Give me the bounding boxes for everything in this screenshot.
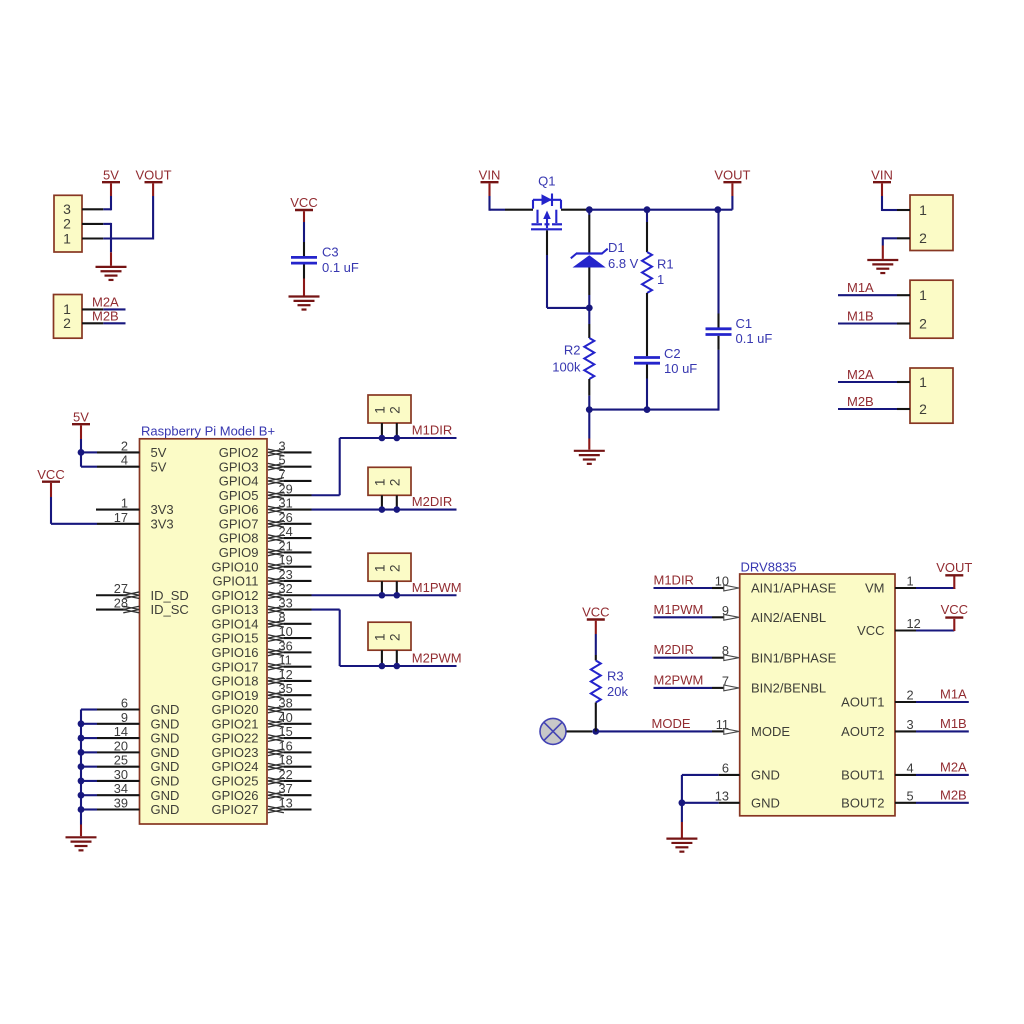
svg-text:1: 1 xyxy=(121,496,128,511)
svg-text:12: 12 xyxy=(907,616,921,631)
svg-text:1: 1 xyxy=(657,272,664,287)
svg-text:GPIO20: GPIO20 xyxy=(212,702,259,717)
svg-text:0.1 uF: 0.1 uF xyxy=(736,331,773,346)
svg-text:40: 40 xyxy=(279,710,293,725)
svg-text:3V3: 3V3 xyxy=(151,502,174,517)
svg-text:1: 1 xyxy=(919,202,927,218)
svg-text:M1B: M1B xyxy=(940,716,967,731)
svg-text:ID_SD: ID_SD xyxy=(151,588,189,603)
svg-text:12: 12 xyxy=(279,667,293,682)
svg-text:M1B: M1B xyxy=(847,308,874,323)
svg-text:GPIO17: GPIO17 xyxy=(212,659,259,674)
svg-text:10 uF: 10 uF xyxy=(664,361,697,376)
svg-text:VM: VM xyxy=(865,581,885,596)
svg-text:2: 2 xyxy=(387,633,402,641)
svg-text:GPIO15: GPIO15 xyxy=(212,631,259,646)
svg-text:2: 2 xyxy=(919,230,927,246)
svg-text:GPIO19: GPIO19 xyxy=(212,688,259,703)
svg-text:13: 13 xyxy=(715,788,729,803)
svg-text:1: 1 xyxy=(919,374,927,390)
svg-text:10: 10 xyxy=(279,624,293,639)
svg-text:24: 24 xyxy=(279,524,293,539)
svg-text:AIN1/APHASE: AIN1/APHASE xyxy=(751,581,837,596)
svg-text:1: 1 xyxy=(372,479,387,487)
svg-text:2: 2 xyxy=(919,401,927,417)
svg-text:GPIO24: GPIO24 xyxy=(212,759,259,774)
svg-text:21: 21 xyxy=(279,538,293,553)
svg-text:8: 8 xyxy=(279,610,286,625)
svg-text:AOUT2: AOUT2 xyxy=(841,724,884,739)
svg-text:VOUT: VOUT xyxy=(714,168,750,183)
svg-text:GPIO6: GPIO6 xyxy=(219,502,259,517)
svg-text:2: 2 xyxy=(121,438,128,453)
svg-text:11: 11 xyxy=(279,653,292,668)
svg-text:2: 2 xyxy=(387,479,402,487)
svg-text:25: 25 xyxy=(114,753,128,768)
svg-text:GPIO16: GPIO16 xyxy=(212,645,259,660)
svg-text:35: 35 xyxy=(279,681,293,696)
svg-text:AIN2/AENBL: AIN2/AENBL xyxy=(751,610,826,625)
svg-text:1: 1 xyxy=(919,287,927,303)
svg-text:16: 16 xyxy=(279,738,293,753)
svg-text:17: 17 xyxy=(114,510,128,525)
svg-text:2: 2 xyxy=(387,564,402,572)
svg-text:GND: GND xyxy=(151,731,180,746)
svg-text:3: 3 xyxy=(279,438,286,453)
svg-text:R1: R1 xyxy=(657,257,674,272)
svg-text:30: 30 xyxy=(114,767,128,782)
svg-text:GPIO23: GPIO23 xyxy=(212,745,259,760)
svg-text:23: 23 xyxy=(279,567,293,582)
svg-text:6: 6 xyxy=(121,696,128,711)
svg-text:BOUT2: BOUT2 xyxy=(841,795,884,810)
svg-text:29: 29 xyxy=(279,481,293,496)
svg-text:VCC: VCC xyxy=(582,605,609,620)
svg-text:34: 34 xyxy=(114,781,128,796)
svg-text:MODE: MODE xyxy=(751,724,790,739)
svg-text:1: 1 xyxy=(372,633,387,641)
svg-text:3: 3 xyxy=(63,201,71,217)
svg-text:BIN1/BPHASE: BIN1/BPHASE xyxy=(751,650,837,665)
svg-text:5: 5 xyxy=(907,788,914,803)
svg-text:MODE: MODE xyxy=(652,716,691,731)
svg-text:AOUT1: AOUT1 xyxy=(841,695,884,710)
svg-text:5V: 5V xyxy=(103,168,119,183)
svg-text:C3: C3 xyxy=(322,245,339,260)
svg-text:M2PWM: M2PWM xyxy=(412,651,462,666)
svg-text:1: 1 xyxy=(63,230,71,246)
svg-text:Raspberry Pi Model B+: Raspberry Pi Model B+ xyxy=(141,424,275,439)
svg-text:GND: GND xyxy=(151,702,180,717)
svg-text:4: 4 xyxy=(907,760,914,775)
svg-text:GPIO14: GPIO14 xyxy=(212,616,259,631)
svg-text:GPIO25: GPIO25 xyxy=(212,774,259,789)
svg-text:6.8 V: 6.8 V xyxy=(608,256,639,271)
svg-text:5V: 5V xyxy=(151,445,167,460)
svg-text:ID_SC: ID_SC xyxy=(151,602,189,617)
svg-text:6: 6 xyxy=(722,760,729,775)
svg-text:C2: C2 xyxy=(664,346,681,361)
svg-text:DRV8835: DRV8835 xyxy=(741,560,797,575)
svg-text:32: 32 xyxy=(279,581,293,596)
svg-text:GPIO7: GPIO7 xyxy=(219,516,259,531)
svg-text:GPIO26: GPIO26 xyxy=(212,788,259,803)
svg-text:1: 1 xyxy=(907,574,914,589)
svg-text:D1: D1 xyxy=(608,240,625,255)
svg-text:GPIO8: GPIO8 xyxy=(219,531,259,546)
svg-text:BOUT1: BOUT1 xyxy=(841,768,884,783)
svg-text:18: 18 xyxy=(279,753,293,768)
svg-text:GPIO22: GPIO22 xyxy=(212,731,259,746)
svg-text:M2A: M2A xyxy=(847,367,874,382)
svg-text:GND: GND xyxy=(151,716,180,731)
svg-text:31: 31 xyxy=(279,496,293,511)
svg-text:1: 1 xyxy=(372,564,387,572)
svg-text:M2B: M2B xyxy=(847,394,874,409)
svg-text:5: 5 xyxy=(279,453,286,468)
svg-text:GPIO21: GPIO21 xyxy=(212,716,259,731)
svg-text:M2DIR: M2DIR xyxy=(654,642,694,657)
svg-text:27: 27 xyxy=(114,581,128,596)
svg-text:GPIO10: GPIO10 xyxy=(212,559,259,574)
svg-text:GPIO13: GPIO13 xyxy=(212,602,259,617)
svg-text:5V: 5V xyxy=(151,459,167,474)
svg-text:R2: R2 xyxy=(564,343,581,358)
svg-text:GPIO3: GPIO3 xyxy=(219,459,259,474)
svg-text:2: 2 xyxy=(63,315,71,331)
svg-text:VIN: VIN xyxy=(479,168,501,183)
svg-text:Q1: Q1 xyxy=(538,174,555,189)
svg-text:GPIO27: GPIO27 xyxy=(212,802,259,817)
svg-text:5V: 5V xyxy=(73,409,89,424)
svg-text:20k: 20k xyxy=(607,684,628,699)
svg-text:GPIO2: GPIO2 xyxy=(219,445,259,460)
svg-text:39: 39 xyxy=(114,796,128,811)
svg-text:15: 15 xyxy=(279,724,293,739)
svg-text:GND: GND xyxy=(151,745,180,760)
svg-text:GND: GND xyxy=(751,795,780,810)
svg-text:3: 3 xyxy=(907,717,914,732)
svg-text:2: 2 xyxy=(919,315,927,331)
svg-text:M1PWM: M1PWM xyxy=(412,580,462,595)
svg-text:0.1 uF: 0.1 uF xyxy=(322,260,359,275)
svg-text:M2B: M2B xyxy=(92,308,119,323)
svg-text:R3: R3 xyxy=(607,669,624,684)
svg-text:GPIO11: GPIO11 xyxy=(212,574,258,589)
svg-text:GPIO5: GPIO5 xyxy=(219,488,259,503)
svg-text:M1PWM: M1PWM xyxy=(654,602,704,617)
svg-text:BIN2/BENBL: BIN2/BENBL xyxy=(751,681,826,696)
svg-text:GND: GND xyxy=(151,802,180,817)
svg-text:M1DIR: M1DIR xyxy=(412,423,452,438)
svg-text:2: 2 xyxy=(907,688,914,703)
svg-text:M1DIR: M1DIR xyxy=(654,573,694,588)
svg-text:7: 7 xyxy=(279,467,286,482)
svg-text:VOUT: VOUT xyxy=(135,168,171,183)
svg-text:19: 19 xyxy=(279,553,293,568)
svg-text:VOUT: VOUT xyxy=(936,560,972,575)
svg-text:2: 2 xyxy=(63,216,71,232)
svg-text:GPIO12: GPIO12 xyxy=(212,588,259,603)
svg-text:100k: 100k xyxy=(552,360,581,375)
svg-text:GPIO4: GPIO4 xyxy=(219,474,259,489)
svg-text:20: 20 xyxy=(114,738,128,753)
svg-text:33: 33 xyxy=(279,596,293,611)
svg-text:VCC: VCC xyxy=(290,195,317,210)
svg-text:GPIO9: GPIO9 xyxy=(219,545,259,560)
svg-text:C1: C1 xyxy=(736,316,753,331)
svg-text:M2DIR: M2DIR xyxy=(412,494,452,509)
svg-text:GND: GND xyxy=(151,759,180,774)
svg-text:VCC: VCC xyxy=(857,623,884,638)
svg-text:VCC: VCC xyxy=(37,467,64,482)
svg-text:GPIO18: GPIO18 xyxy=(212,674,259,689)
svg-text:3V3: 3V3 xyxy=(151,516,174,531)
svg-text:2: 2 xyxy=(387,406,402,414)
svg-text:36: 36 xyxy=(279,638,293,653)
svg-text:26: 26 xyxy=(279,510,293,525)
svg-text:1: 1 xyxy=(372,406,387,414)
svg-text:9: 9 xyxy=(121,710,128,725)
svg-text:M2A: M2A xyxy=(92,294,119,309)
svg-text:38: 38 xyxy=(279,696,293,711)
svg-text:M2PWM: M2PWM xyxy=(654,672,704,687)
svg-text:GND: GND xyxy=(151,788,180,803)
svg-text:37: 37 xyxy=(279,781,293,796)
svg-text:M1A: M1A xyxy=(847,280,874,295)
svg-text:M2A: M2A xyxy=(940,760,967,775)
svg-text:VCC: VCC xyxy=(941,602,968,617)
svg-text:VIN: VIN xyxy=(871,168,893,183)
svg-text:GND: GND xyxy=(751,768,780,783)
svg-text:4: 4 xyxy=(121,453,128,468)
svg-text:22: 22 xyxy=(279,767,293,782)
svg-text:GND: GND xyxy=(151,774,180,789)
svg-text:M1A: M1A xyxy=(940,687,967,702)
svg-text:14: 14 xyxy=(114,724,128,739)
svg-text:13: 13 xyxy=(279,796,293,811)
svg-text:M2B: M2B xyxy=(940,788,967,803)
